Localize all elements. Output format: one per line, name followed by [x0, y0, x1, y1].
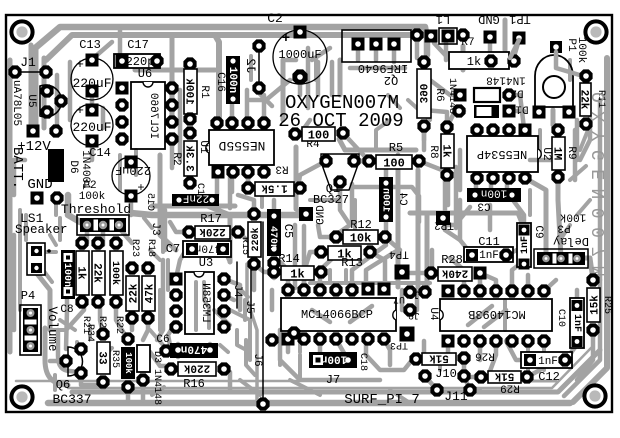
svg-text:BC327: BC327: [313, 193, 349, 207]
svg-text:C15: C15: [144, 193, 155, 211]
svg-text:D1: D1: [515, 103, 529, 115]
svg-text:MC14066BCP: MC14066BCP: [301, 308, 373, 322]
svg-text:C7: C7: [166, 242, 180, 256]
svg-text:C9: C9: [532, 225, 544, 238]
svg-text:R13: R13: [341, 256, 363, 270]
svg-text:MC14093B: MC14093B: [468, 307, 526, 321]
svg-text:J3: J3: [149, 222, 161, 235]
svg-text:J9: J9: [408, 309, 420, 320]
svg-text:R5: R5: [389, 141, 403, 155]
svg-text:R18: R18: [145, 239, 156, 257]
svg-text:220k: 220k: [183, 361, 210, 373]
svg-text:3.3k: 3.3k: [183, 145, 195, 172]
svg-text:C1: C1: [194, 183, 205, 195]
svg-text:LM358N: LM358N: [199, 283, 211, 323]
svg-text:1N4148: 1N4148: [486, 74, 526, 86]
svg-text:R26: R26: [475, 350, 495, 362]
svg-text:220k: 220k: [199, 225, 226, 237]
svg-text:Q2: Q2: [384, 73, 398, 87]
svg-text:R22: R22: [113, 316, 124, 334]
svg-text:R34: R34: [84, 324, 95, 342]
svg-text:R1: R1: [198, 85, 210, 99]
svg-text:Volume: Volume: [45, 306, 59, 351]
svg-text:1N4148: 1N4148: [446, 78, 457, 114]
svg-text:100n: 100n: [321, 353, 347, 365]
svg-text:Speaker: Speaker: [15, 223, 68, 237]
svg-text:51k: 51k: [494, 369, 514, 381]
svg-text:P3: P3: [557, 222, 570, 234]
svg-text:C10: C10: [555, 309, 566, 327]
svg-text:R23: R23: [129, 239, 140, 257]
svg-text:+12V: +12V: [17, 139, 51, 155]
svg-text:1nF: 1nF: [571, 314, 582, 332]
svg-text:100n: 100n: [380, 188, 391, 212]
svg-text:470n: 470n: [195, 242, 221, 254]
svg-text:100k: 100k: [123, 352, 133, 374]
svg-text:D3 1N4148: D3 1N4148: [151, 351, 162, 405]
svg-text:R8: R8: [427, 145, 439, 158]
svg-text:390: 390: [416, 84, 428, 104]
svg-text:J1: J1: [20, 55, 36, 70]
svg-text:+: +: [76, 57, 84, 72]
svg-text:240k: 240k: [441, 266, 468, 278]
svg-text:100k: 100k: [559, 211, 586, 223]
svg-text:100: 100: [308, 128, 330, 142]
svg-text:OXYGEN007M: OXYGEN007M: [590, 92, 610, 285]
svg-text:1k: 1k: [75, 266, 87, 280]
svg-text:D2: D2: [510, 87, 523, 99]
svg-text:R28: R28: [441, 253, 463, 267]
svg-text:R17: R17: [200, 212, 222, 226]
svg-text:ICL7660: ICL7660: [147, 93, 159, 139]
svg-text:+: +: [76, 103, 84, 118]
svg-text:D6: D6: [67, 160, 79, 173]
svg-text:C4: C4: [396, 192, 408, 206]
svg-text:100k: 100k: [109, 261, 121, 285]
svg-text:J2: J2: [243, 58, 258, 74]
svg-text:IRF9640: IRF9640: [358, 61, 408, 75]
svg-text:R16: R16: [183, 377, 205, 391]
svg-text:15k: 15k: [589, 295, 601, 315]
svg-text:47k: 47k: [144, 283, 156, 303]
svg-text:33: 33: [96, 351, 108, 365]
svg-text:470n: 470n: [181, 343, 207, 355]
svg-text:22k: 22k: [578, 90, 590, 110]
svg-text:TP4: TP4: [389, 248, 409, 260]
svg-text:U7: U7: [393, 293, 405, 304]
svg-text:10k: 10k: [350, 231, 372, 245]
svg-text:C6: C6: [156, 334, 169, 346]
svg-text:1nF: 1nF: [520, 236, 531, 254]
svg-text:R3: R3: [275, 163, 288, 175]
svg-text:R35: R35: [109, 350, 120, 368]
svg-text:U4: U4: [427, 307, 439, 321]
svg-text:1nF: 1nF: [538, 356, 558, 368]
svg-text:BC337: BC337: [52, 392, 91, 407]
svg-text:100n: 100n: [61, 263, 72, 287]
svg-text:C17: C17: [127, 38, 149, 52]
svg-text:R6: R6: [433, 88, 445, 101]
svg-text:GND: GND: [312, 205, 324, 225]
svg-text:J10: J10: [435, 367, 457, 381]
svg-text:GND: GND: [478, 12, 500, 26]
svg-text:R25: R25: [601, 296, 612, 314]
svg-text:U6: U6: [138, 67, 152, 81]
svg-text:SURF_PI 7: SURF_PI 7: [344, 392, 420, 408]
svg-text:NE5534P: NE5534P: [477, 147, 527, 161]
svg-text:22k: 22k: [91, 263, 103, 283]
svg-text:1k: 1k: [440, 144, 452, 158]
svg-text:100k: 100k: [575, 37, 587, 64]
svg-text:J5: J5: [243, 300, 255, 313]
svg-text:U2: U2: [540, 147, 552, 160]
svg-text:J4: J4: [231, 284, 243, 298]
svg-text:+: +: [137, 181, 144, 195]
svg-text:C5: C5: [281, 224, 295, 238]
svg-text:1k: 1k: [290, 267, 304, 281]
svg-text:C18: C18: [357, 353, 368, 371]
svg-text:J7: J7: [326, 373, 340, 387]
svg-text:100n: 100n: [481, 187, 507, 199]
svg-text:C13: C13: [79, 38, 101, 52]
svg-text:C3: C3: [477, 200, 490, 212]
svg-text:L1: L1: [436, 12, 450, 26]
svg-text:100k: 100k: [183, 78, 195, 105]
svg-text:R29: R29: [500, 382, 520, 394]
svg-text:C14: C14: [89, 146, 111, 160]
svg-text:Q6: Q6: [56, 378, 70, 392]
svg-text:R7: R7: [461, 37, 474, 49]
svg-text:NE555D: NE555D: [218, 138, 265, 153]
svg-text:1M: 1M: [551, 147, 563, 161]
svg-text:22k: 22k: [128, 283, 140, 303]
svg-text:1000uF: 1000uF: [278, 48, 321, 62]
svg-text:+: +: [282, 31, 290, 47]
svg-text:1nF: 1nF: [479, 250, 499, 262]
svg-text:R14: R14: [278, 252, 300, 266]
svg-text:J6: J6: [251, 353, 263, 366]
svg-text:C12: C12: [538, 370, 560, 384]
svg-text:220k: 220k: [250, 227, 262, 251]
svg-text:P4: P4: [21, 289, 35, 303]
svg-text:C2: C2: [267, 11, 283, 26]
svg-text:TP3: TP3: [390, 339, 408, 350]
svg-text:TP1: TP1: [509, 12, 531, 26]
svg-text:uA78L05: uA78L05: [10, 80, 22, 126]
svg-text:100n: 100n: [226, 67, 238, 93]
svg-text:220uF: 220uF: [72, 120, 111, 135]
svg-text:100: 100: [383, 156, 405, 170]
svg-text:Delay: Delay: [553, 234, 589, 248]
svg-text:C16: C16: [214, 72, 226, 92]
svg-text:R9: R9: [565, 146, 577, 159]
svg-text:U1: U1: [197, 140, 209, 154]
svg-text:C8: C8: [60, 304, 73, 316]
svg-text:U5: U5: [25, 94, 37, 107]
svg-text:51k: 51k: [429, 351, 449, 363]
svg-text:R2: R2: [170, 152, 182, 165]
svg-text:U3: U3: [199, 256, 213, 270]
svg-text:1.5k: 1.5k: [261, 181, 288, 193]
svg-text:1k: 1k: [467, 55, 481, 69]
svg-text:470n: 470n: [267, 226, 278, 250]
